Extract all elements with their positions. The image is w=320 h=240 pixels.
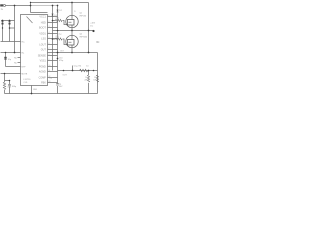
svg-text:10µ: 10µ xyxy=(8,59,12,61)
wire source Q1 to drain Q2 xyxy=(71,25,73,40)
wire source Q2 xyxy=(71,45,73,53)
wire zobel stub xyxy=(72,66,74,71)
svg-text:8Ω: 8Ω xyxy=(96,41,99,44)
svg-text:13: 13 xyxy=(49,81,51,83)
capacitor C1 input left xyxy=(1,22,4,25)
wire supply mid xyxy=(53,30,94,32)
svg-text:OUT: OUT xyxy=(41,48,47,51)
svg-text:220: 220 xyxy=(56,36,60,38)
svg-text:Q1: Q1 xyxy=(80,13,84,15)
wire bus57 xyxy=(57,6,59,84)
connector J1 input jack xyxy=(0,4,5,6)
svg-text:IN: IN xyxy=(1,9,4,11)
svg-text:D2: D2 xyxy=(59,10,62,12)
IC internal diagonal mark xyxy=(27,17,33,24)
svg-text:5: 5 xyxy=(49,37,50,39)
diode D2 on bus57 xyxy=(57,10,59,12)
svg-text:OUT: OUT xyxy=(60,50,65,52)
svg-text:GND: GND xyxy=(33,89,38,91)
resistor R4 output horizontal xyxy=(80,69,88,72)
IC U1 body xyxy=(21,15,48,86)
wire left bus C xyxy=(1,73,21,75)
capacitor C2 input right xyxy=(8,22,11,25)
svg-text:2W: 2W xyxy=(84,80,87,82)
wire cap57 bottom xyxy=(57,86,59,94)
wire cap C2 left xyxy=(2,21,4,42)
svg-text:Q2: Q2 xyxy=(80,34,84,36)
wire input line xyxy=(6,5,31,7)
svg-text:11: 11 xyxy=(49,70,51,72)
wire cap C3 left xyxy=(9,21,11,42)
svg-text:8: 8 xyxy=(49,54,50,56)
svg-text:IN+: IN+ xyxy=(22,41,26,43)
resistor R6 on v97 xyxy=(96,75,98,82)
svg-text:100p: 100p xyxy=(12,86,17,88)
capacitor C4 electrolytic xyxy=(4,57,6,60)
IC pin numbers xyxy=(49,15,51,83)
svg-text:LOUT: LOUT xyxy=(39,43,46,46)
svg-text:BYP: BYP xyxy=(22,66,27,68)
svg-text:50V: 50V xyxy=(59,86,63,88)
diode D1 on bus52 xyxy=(52,14,54,16)
wire v30 xyxy=(30,3,32,13)
capacitor C5 bottom left xyxy=(8,84,11,85)
wire v97 output xyxy=(97,53,99,94)
label Q1 xyxy=(80,13,87,18)
svg-text:HSD: HSD xyxy=(41,21,46,24)
resistor R1 gate Q1 xyxy=(56,19,62,21)
IC U1 left stubs xyxy=(18,58,21,63)
wire left cap line xyxy=(6,66,21,68)
wire parallel rc link xyxy=(5,80,10,82)
wire gate Q2 xyxy=(53,38,56,40)
svg-text:3: 3 xyxy=(49,26,50,28)
wire left vertical xyxy=(14,6,16,53)
wire below IC xyxy=(31,86,33,94)
svg-text:7: 7 xyxy=(49,48,50,50)
svg-text:4: 4 xyxy=(49,32,50,34)
wire R feedback xyxy=(4,74,6,83)
label node dot57 xyxy=(59,57,63,62)
svg-text:NC: NC xyxy=(14,57,17,59)
capacitor C6 on bus57 bottom xyxy=(56,84,59,85)
wire output line xyxy=(48,52,98,54)
wire drain Q1 xyxy=(71,3,73,20)
svg-text:1: 1 xyxy=(49,15,50,17)
svg-text:MUTE: MUTE xyxy=(22,73,28,75)
svg-text:0.1µ: 0.1µ xyxy=(58,34,63,36)
label Q2 xyxy=(80,34,89,39)
svg-text:D: D xyxy=(74,11,76,13)
IC U1 right pins ladder xyxy=(48,17,58,83)
IC pin labels left column xyxy=(14,41,28,75)
svg-text:4.7k: 4.7k xyxy=(7,87,11,89)
svg-text:R4: R4 xyxy=(79,65,82,67)
wire gate Q1 xyxy=(53,20,56,22)
wire v88 lower xyxy=(88,71,90,76)
wire left bus A xyxy=(1,41,21,43)
svg-text:470p: 470p xyxy=(59,60,63,62)
svg-text:VDD1: VDD1 xyxy=(39,32,46,35)
resistor R5 vertical v88 xyxy=(87,75,89,82)
svg-text:10: 10 xyxy=(49,65,51,67)
wire C parallel xyxy=(9,81,11,85)
svg-text:220: 220 xyxy=(56,18,60,20)
svg-text:IRF9530: IRF9530 xyxy=(80,37,89,39)
resistor R2 gate Q2 xyxy=(56,38,62,40)
wire left bus B xyxy=(1,52,21,54)
junction dots xyxy=(2,2,95,95)
wire electrolytic C4 xyxy=(5,53,7,67)
wire bus52 xyxy=(52,6,54,71)
wire ground rail xyxy=(5,93,98,95)
svg-text:NC: NC xyxy=(14,62,17,64)
svg-text:IN-: IN- xyxy=(22,52,25,54)
svg-text:10: 10 xyxy=(86,65,89,67)
svg-text:C9: C9 xyxy=(50,78,52,80)
svg-text:LSS: LSS xyxy=(41,37,46,40)
svg-text:2: 2 xyxy=(49,21,50,23)
svg-text:1k: 1k xyxy=(85,77,87,79)
svg-text:PGND: PGND xyxy=(39,65,46,68)
transistor Q1 xyxy=(66,15,78,27)
svg-text:10: 10 xyxy=(94,77,96,79)
wire bottom node xyxy=(58,70,98,72)
svg-text:CLD: CLD xyxy=(24,82,28,84)
svg-text:IRF530: IRF530 xyxy=(80,16,87,18)
svg-text:AGND: AGND xyxy=(39,70,46,73)
wire cap top bus xyxy=(1,20,15,22)
svg-text:BOOT: BOOT xyxy=(39,26,46,29)
wire top rail xyxy=(31,2,89,4)
svg-text:OUT: OUT xyxy=(63,75,68,77)
wire mid top xyxy=(31,12,48,14)
IC pin labels right column xyxy=(38,15,47,84)
svg-text:VSS1: VSS1 xyxy=(40,59,47,62)
svg-text:9: 9 xyxy=(49,59,50,61)
svg-text:+40V: +40V xyxy=(90,22,95,24)
resistor R3 vertical bottom left xyxy=(3,82,5,90)
svg-text:FBK: FBK xyxy=(41,81,46,84)
wire v88 supply xyxy=(88,3,90,53)
svg-text:6: 6 xyxy=(49,43,50,45)
svg-text:VCC1: VCC1 xyxy=(39,15,46,18)
svg-text:1W: 1W xyxy=(93,80,96,82)
svg-text:SENSE: SENSE xyxy=(38,54,47,57)
transistor Q2 xyxy=(66,35,78,47)
svg-text:COMP: COMP xyxy=(39,76,47,79)
wire link y28 xyxy=(10,27,15,29)
svg-text:DC: DC xyxy=(90,25,93,27)
supply label xyxy=(90,22,95,27)
